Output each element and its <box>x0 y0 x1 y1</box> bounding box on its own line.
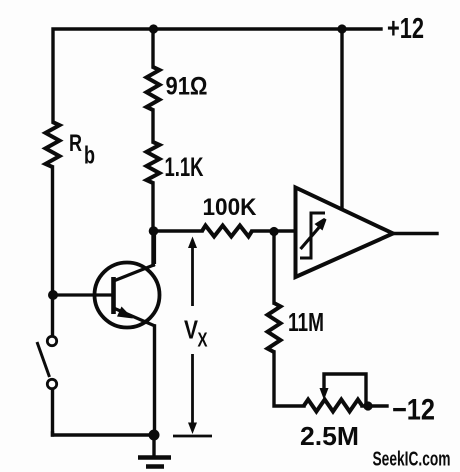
svg-text:SeekIC.com: SeekIC.com <box>373 449 451 471</box>
svg-text:X: X <box>198 330 208 352</box>
svg-text:−12: −12 <box>392 394 435 427</box>
svg-text:V: V <box>184 315 199 345</box>
svg-text:b: b <box>84 142 95 170</box>
svg-text:91Ω: 91Ω <box>166 73 208 101</box>
svg-text:100K: 100K <box>203 194 257 221</box>
svg-text:R: R <box>69 130 82 157</box>
svg-text:1.1K: 1.1K <box>165 152 204 182</box>
svg-text:2.5M: 2.5M <box>300 423 359 451</box>
svg-text:11M: 11M <box>288 307 324 337</box>
svg-text:+12: +12 <box>387 13 424 45</box>
